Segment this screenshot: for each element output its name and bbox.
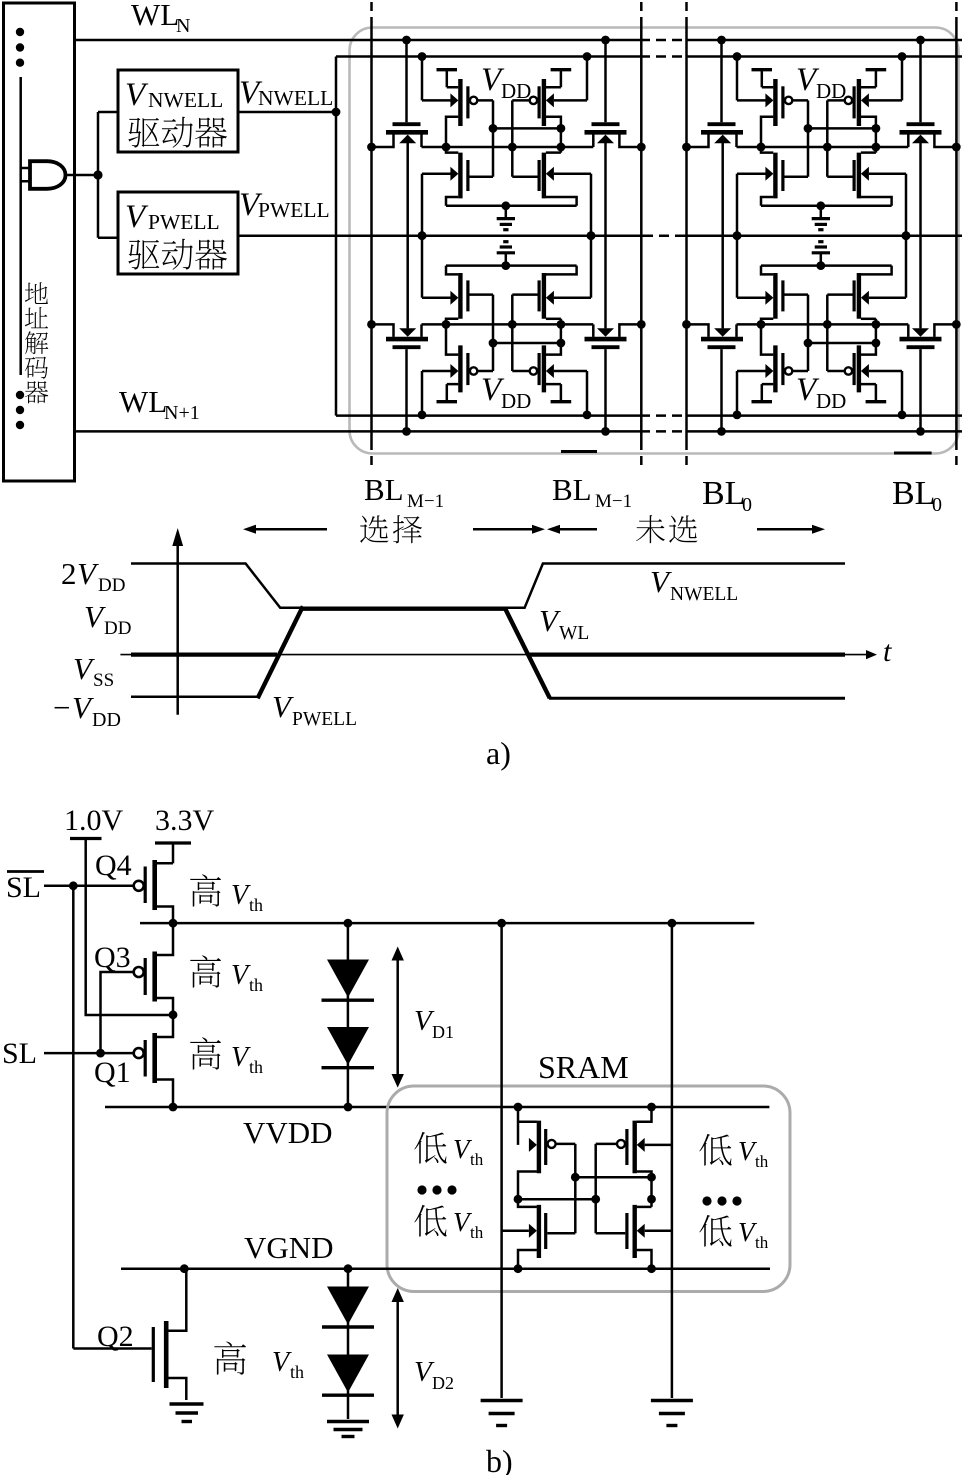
select/unselect annotation arrows [243, 525, 825, 534]
svg-text:V: V [84, 599, 106, 634]
svg-text:th: th [755, 1233, 769, 1252]
svg-text:V: V [231, 960, 251, 991]
supply label V_DD (top cell) [796, 62, 846, 103]
supply label V_DD (top cell) [481, 62, 531, 103]
svg-text:V: V [231, 880, 251, 911]
svg-text:BL: BL [892, 475, 935, 512]
svg-text:a): a) [486, 735, 511, 771]
label 高V_th (Q4) [190, 874, 263, 915]
svg-text:th: th [470, 1223, 484, 1242]
svg-text:th: th [249, 975, 263, 995]
V_NWELL driver box [118, 70, 238, 152]
svg-text:−: − [53, 690, 70, 725]
NWELL bias frame (top rail) [336, 55, 962, 58]
ground (left bias column) [481, 1401, 523, 1426]
word line WL_N+1 [75, 384, 962, 431]
svg-text:3.3V: 3.3V [155, 804, 215, 837]
V_D1 measurement arrow [392, 947, 455, 1088]
svg-text:V: V [539, 603, 561, 638]
svg-text:V: V [72, 690, 94, 725]
bit line BLB_0 [955, 2, 958, 470]
V_PWELL waveform (-VDD levels) [131, 697, 845, 698]
svg-text:NWELL: NWELL [670, 584, 738, 605]
supply label V_DD (bottom cell) [481, 372, 531, 413]
bit line label BL_M-1 [364, 472, 444, 512]
cross-couple wire (lower) [514, 1195, 656, 1204]
svg-text:PWELL: PWELL [258, 198, 330, 222]
diode D3 [322, 1269, 374, 1419]
V_WL waveform (thick) [131, 606, 845, 698]
NWELL bias frame (bottom rail) [336, 414, 962, 417]
svg-text:NWELL: NWELL [148, 88, 223, 112]
svg-text:M−1: M−1 [407, 491, 444, 512]
waveform label V_WL [539, 603, 589, 644]
address decoder block 地址解码器 [4, 3, 75, 481]
SRAM cell row N+1, col 0 (mirrored) [682, 231, 961, 436]
svg-text:t: t [883, 635, 892, 668]
svg-text:N: N [176, 15, 190, 37]
low-Vth NMOS (left) of SRAM cell [502, 1199, 576, 1269]
svg-text:b): b) [486, 1443, 513, 1475]
nwell/psub bias column (right) [671, 923, 674, 1398]
label 高V_th (Q1) [190, 1037, 263, 1077]
svg-text:0: 0 [932, 494, 942, 516]
supply label V_DD (bottom cell) [796, 372, 846, 413]
svg-text:DD: DD [98, 575, 125, 596]
svg-text:D1: D1 [432, 1022, 454, 1042]
svg-text:1.0V: 1.0V [64, 804, 124, 837]
svg-text:V: V [77, 556, 99, 591]
word line WL_N [75, 0, 962, 40]
virtual ground rail (VGND) [121, 1230, 770, 1273]
transistor Q1 (high-Vth PMOS) [94, 1015, 173, 1107]
svg-text:Q3: Q3 [94, 941, 131, 974]
SRAM block outline (gray) [387, 1049, 790, 1292]
svg-text:V: V [73, 651, 95, 686]
svg-text:DD: DD [104, 618, 131, 639]
diode D1 [322, 923, 375, 1107]
net label V_NWELL [239, 75, 333, 111]
level label 2V_DD [61, 556, 125, 596]
SRAM cell row N, col 0 [682, 36, 961, 241]
labels 低V_th and dots (left column) [414, 1132, 483, 1242]
waveform label V_NWELL [650, 564, 738, 605]
svg-text:N+1: N+1 [164, 402, 200, 424]
labels 低V_th and dots (right column) [699, 1134, 768, 1252]
label 高V_th (Q3) [190, 955, 263, 995]
PWELL bias line [238, 234, 962, 237]
wire: V_NWELL to array nwell frame [238, 108, 340, 117]
svg-text:NWELL: NWELL [258, 86, 333, 110]
svg-text:V: V [272, 1347, 292, 1378]
diode D2 [322, 1027, 375, 1068]
NWELL bias frame (left edge) [335, 57, 338, 416]
svg-text:V: V [272, 689, 294, 724]
AND gate (row select) [30, 161, 66, 189]
svg-text:0: 0 [742, 494, 752, 516]
nwell/psub bias column (left) [500, 923, 503, 1398]
net SLB (SL-bar) [6, 871, 134, 1349]
svg-text:SRAM: SRAM [538, 1049, 629, 1085]
bit line BLB_M-1 [640, 2, 643, 470]
svg-text:M−1: M−1 [595, 491, 632, 512]
svg-text:Q1: Q1 [94, 1056, 131, 1089]
level label V_SS [73, 651, 114, 691]
SRAM cell row N, col M-1 [367, 36, 646, 241]
low-Vth NMOS (right) of SRAM cell [596, 1205, 672, 1269]
V_PWELL driver box [118, 192, 238, 274]
svg-text:BL: BL [552, 472, 592, 507]
svg-text:V: V [650, 564, 672, 599]
waveform label V_PWELL [272, 689, 357, 730]
svg-text:DD: DD [501, 389, 531, 413]
level label -V_DD [53, 690, 121, 731]
ground (right bias column) [651, 1401, 693, 1426]
bit line label BLB_0 (with overline) [892, 453, 942, 516]
transistor Q2 (high-Vth NMOS) [73, 1269, 186, 1400]
net SL [2, 1037, 134, 1070]
V_NWELL waveform (thin) [131, 564, 845, 608]
svg-text:SL: SL [6, 871, 41, 904]
cross-couple wire (upper) [571, 1173, 656, 1182]
svg-text:WL: WL [559, 623, 589, 644]
bit line BL_M-1 [370, 2, 373, 470]
supply 1.0V [64, 804, 173, 1015]
svg-text:th: th [249, 1057, 263, 1077]
V_D2 measurement arrow [392, 1288, 455, 1429]
svg-text:DD: DD [816, 79, 846, 103]
voltage axis (vertical) [172, 528, 183, 715]
svg-text:VGND: VGND [244, 1230, 334, 1265]
svg-text:th: th [755, 1152, 769, 1171]
svg-text:DD: DD [92, 709, 121, 731]
cell array outline (gray rounded box) [350, 28, 959, 454]
svg-text:D2: D2 [432, 1373, 454, 1393]
net label V_PWELL [239, 187, 330, 223]
label 未选 (unselected) [636, 515, 697, 543]
label 选择 (selected) [360, 515, 422, 543]
svg-text:Q4: Q4 [95, 849, 132, 882]
bit line BL_0 [685, 2, 688, 470]
level label V_DD [84, 599, 131, 639]
svg-text:PWELL: PWELL [292, 709, 357, 730]
supply 3.3V [155, 804, 215, 863]
svg-text:th: th [470, 1150, 484, 1169]
svg-text:th: th [249, 895, 263, 915]
svg-text:DD: DD [816, 389, 846, 413]
svg-text:WL: WL [119, 384, 167, 419]
svg-text:V: V [231, 1042, 251, 1073]
ground under diode chain [327, 1422, 369, 1437]
virtual VDD rail (VVDD) [105, 1103, 769, 1150]
svg-text:BL: BL [702, 475, 745, 512]
svg-text:WL: WL [131, 0, 179, 32]
svg-text:SS: SS [93, 670, 114, 691]
ground under Q2 [170, 1404, 204, 1422]
low-Vth PMOS (right) of SRAM cell [596, 1107, 672, 1233]
svg-text:th: th [290, 1362, 304, 1382]
diode D4 [322, 1355, 374, 1396]
svg-text:2: 2 [61, 556, 77, 591]
bit line label BLB_M-1 (with overline) [552, 452, 632, 513]
svg-text:PWELL: PWELL [148, 210, 220, 234]
time axis with arrow and label t [120, 635, 892, 668]
label 高V_th (Q2) [214, 1341, 304, 1382]
svg-text:DD: DD [501, 79, 531, 103]
svg-text:VVDD: VVDD [243, 1115, 333, 1150]
3.3V power rail [140, 919, 754, 928]
transistor Q3 (high-Vth PMOS) [94, 923, 177, 1053]
SRAM cell row N+1, col M-1 (mirrored) [367, 231, 646, 436]
svg-text:SL: SL [2, 1037, 37, 1070]
wire: AND output node [66, 112, 119, 238]
low-Vth PMOS (left) of SRAM cell [518, 1107, 575, 1233]
svg-text:BL: BL [364, 472, 404, 507]
transistor Q4 (high-Vth PMOS) [95, 849, 173, 923]
bit line label BL_0 [702, 475, 752, 516]
